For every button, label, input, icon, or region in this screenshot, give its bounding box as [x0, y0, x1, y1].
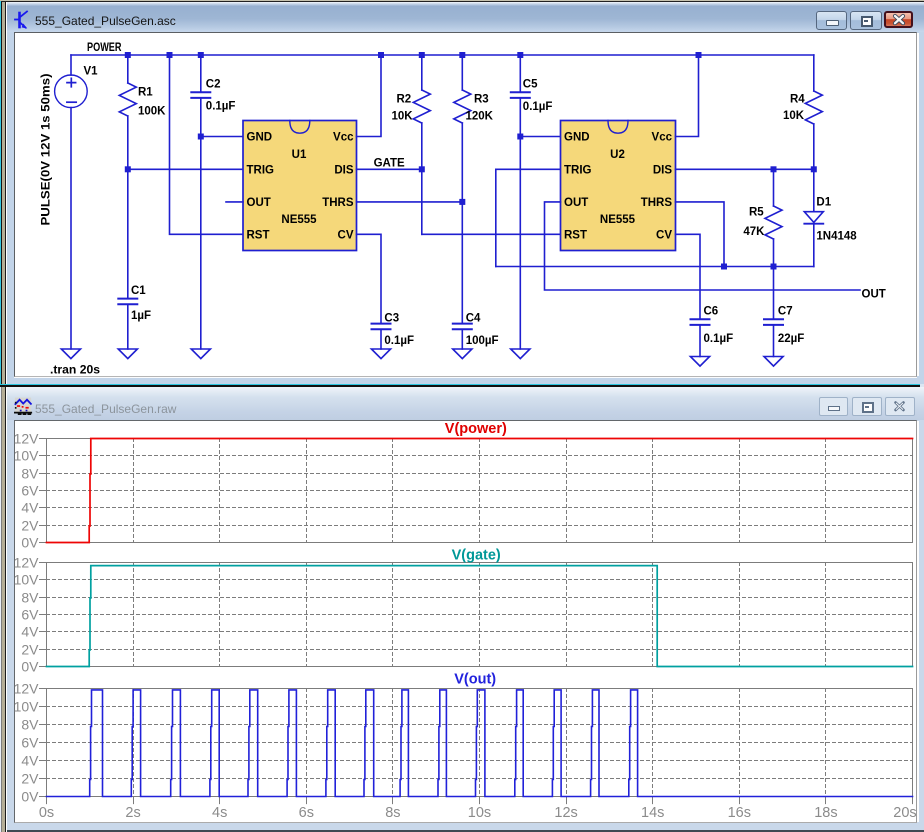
svg-text:6s: 6s [299, 805, 314, 821]
op-amp U2 (NE555 timer) [561, 121, 676, 251]
svg-text:10V: 10V [14, 571, 40, 587]
resistor R3 [454, 55, 494, 323]
op-amp U1 (NE555 timer) [243, 121, 357, 251]
resistor R5 [743, 169, 782, 266]
svg-text:10K: 10K [783, 110, 805, 122]
svg-text:GND: GND [564, 132, 590, 144]
svg-text:R3: R3 [474, 94, 489, 106]
capacitor C3 [372, 313, 415, 350]
svg-text:Vcc: Vcc [652, 132, 673, 144]
svg-text:0V: 0V [21, 658, 39, 674]
svg-text:OUT: OUT [564, 197, 588, 209]
svg-text:R5: R5 [749, 207, 764, 219]
svg-text:4V: 4V [21, 752, 39, 768]
svg-text:Vcc: Vcc [333, 132, 354, 144]
svg-text:2V: 2V [21, 517, 39, 533]
ground (V1) [61, 349, 80, 359]
ground (C3) [371, 349, 390, 359]
client area border [14, 32, 917, 377]
svg-text:OUT: OUT [247, 197, 271, 209]
svg-text:TRIG: TRIG [564, 164, 592, 176]
LTspice app icon (title bar) [15, 12, 27, 28]
svg-text:10K: 10K [392, 111, 414, 123]
svg-text:RST: RST [564, 229, 587, 241]
svg-text:2V: 2V [21, 641, 39, 657]
svg-text:PULSE(0V 12V 1s 50ms): PULSE(0V 12V 1s 50ms) [41, 73, 53, 225]
capacitor C7 [764, 267, 804, 357]
svg-text:10V: 10V [14, 447, 40, 463]
wire DIS U2 [676, 168, 814, 170]
wire OUT U2 [545, 202, 861, 290]
svg-text:100K: 100K [138, 106, 166, 118]
wire power rail [71, 54, 814, 56]
right edge white separator strips [917, 33, 919, 376]
svg-text:THRS: THRS [641, 197, 673, 209]
svg-text:0.1µF: 0.1µF [704, 333, 734, 345]
svg-text:6V: 6V [21, 606, 39, 622]
svg-text:47K: 47K [743, 226, 765, 238]
svg-text:U2: U2 [610, 149, 625, 161]
time axis ticks [47, 797, 913, 804]
svg-text:DIS: DIS [653, 164, 673, 176]
pin stub OUT U1 [226, 201, 243, 203]
svg-text:0V: 0V [21, 534, 39, 550]
pane V(power) grid and frame [40, 439, 913, 543]
ground (C6) [690, 357, 709, 367]
svg-text:R2: R2 [397, 94, 412, 106]
svg-text:0V: 0V [21, 788, 39, 804]
svg-text:D1: D1 [816, 196, 831, 208]
ground (C5) [511, 349, 530, 359]
capacitor C1 [118, 285, 151, 349]
svg-text:22µF: 22µF [778, 333, 804, 345]
diode D1 [804, 169, 857, 266]
svg-text:V(power): V(power) [445, 421, 507, 437]
svg-text:V1: V1 [84, 66, 99, 78]
svg-text:NE555: NE555 [281, 214, 317, 226]
svg-text:CV: CV [656, 229, 672, 241]
svg-text:0s: 0s [39, 805, 54, 821]
svg-text:GATE: GATE [374, 158, 405, 170]
capacitor C6 [691, 306, 734, 357]
ground (C1) [118, 349, 137, 359]
svg-text:C1: C1 [131, 285, 146, 297]
resistor R1 [119, 55, 166, 298]
wire Vcc U1 [357, 55, 382, 137]
svg-text:12V: 12V [14, 680, 40, 696]
wire DIS U1 / GATE [357, 168, 422, 170]
svg-text:V(out): V(out) [454, 671, 496, 687]
trace V(power) [47, 439, 913, 543]
capacitor C5 [511, 55, 553, 349]
window buttons [816, 11, 847, 30]
svg-text:2V: 2V [21, 770, 39, 786]
svg-text:8V: 8V [21, 716, 39, 732]
window buttons (inactive style) [819, 397, 849, 416]
wire RST column [170, 55, 244, 234]
svg-text:C6: C6 [704, 306, 719, 318]
svg-text:C2: C2 [206, 78, 221, 90]
resistor R4 [783, 55, 822, 169]
client area [14, 420, 917, 823]
wire CV U1 to C3 [357, 234, 382, 323]
resistor R2 [392, 55, 431, 234]
svg-text:C5: C5 [523, 79, 538, 91]
svg-text:4V: 4V [21, 499, 39, 515]
svg-text:THRS: THRS [322, 197, 354, 209]
pane V(out) grid and frame [40, 689, 913, 797]
wire GND U1 [201, 136, 243, 138]
capacitor C4 [453, 313, 499, 350]
svg-text:RST: RST [247, 229, 270, 241]
junction nodes (solid squares) [125, 52, 817, 270]
voltage source V1 [41, 55, 99, 349]
svg-text:R1: R1 [138, 87, 153, 99]
svg-text:0.1µF: 0.1µF [523, 101, 553, 113]
pane V(gate) voltage axis labels [14, 554, 40, 674]
svg-text:1µF: 1µF [131, 310, 151, 322]
svg-text:0.1µF: 0.1µF [206, 101, 236, 113]
svg-text:120K: 120K [466, 111, 494, 123]
time axis labels [39, 805, 917, 821]
waveform doc icon (bottom title bar) [15, 398, 31, 415]
svg-text:14s: 14s [641, 805, 664, 821]
trace V(gate) [47, 566, 913, 667]
svg-text:CV: CV [338, 229, 354, 241]
title bar gradient [7, 2, 924, 32]
svg-text:16s: 16s [728, 805, 751, 821]
svg-text:10s: 10s [468, 805, 491, 821]
svg-text:2s: 2s [125, 805, 140, 821]
svg-text:GND: GND [247, 132, 273, 144]
bottom frame line of window [7, 830, 924, 832]
svg-text:TRIG: TRIG [247, 164, 275, 176]
svg-text:8s: 8s [385, 805, 400, 821]
pane V(gate) grid and frame [40, 563, 913, 667]
wire CV U2 to C6 [676, 234, 701, 319]
svg-text:V(gate): V(gate) [452, 547, 501, 563]
wire TRIG U2 [496, 169, 561, 266]
svg-text:.tran 20s: .tran 20s [50, 365, 100, 377]
svg-text:C4: C4 [466, 313, 481, 325]
svg-text:8V: 8V [21, 589, 39, 605]
ground (C7) [764, 357, 783, 367]
ground (C4) [453, 349, 472, 359]
svg-text:12s: 12s [554, 805, 577, 821]
svg-text:20s: 20s [893, 805, 916, 821]
pane V(out) voltage axis labels [14, 680, 40, 804]
svg-text:C7: C7 [778, 306, 793, 318]
svg-text:DIS: DIS [334, 164, 354, 176]
separation lines under top window [0, 384, 920, 385]
svg-text:4V: 4V [21, 623, 39, 639]
svg-text:6V: 6V [21, 734, 39, 750]
wire TRIG U1 [128, 168, 243, 170]
wire THRS U1 [357, 201, 463, 203]
pane V(power) voltage axis labels [14, 430, 40, 550]
svg-text:18s: 18s [814, 805, 837, 821]
svg-text:1N4148: 1N4148 [816, 231, 857, 243]
wire RST U2 [422, 233, 561, 235]
trace V(out) [47, 690, 913, 797]
svg-text:R4: R4 [790, 94, 805, 106]
svg-text:12V: 12V [14, 430, 40, 446]
capacitor C2 [191, 55, 235, 349]
wire Vcc U2 [676, 55, 699, 137]
svg-text:U1: U1 [292, 149, 307, 161]
wire GND U2 [520, 136, 560, 138]
title text [35, 14, 176, 28]
svg-text:C3: C3 [384, 313, 399, 325]
svg-text:0.1µF: 0.1µF [384, 335, 414, 347]
svg-text:100µF: 100µF [466, 335, 499, 347]
svg-text:6V: 6V [21, 482, 39, 498]
svg-text:NE555: NE555 [600, 214, 636, 226]
wire THRS U2 [676, 202, 725, 267]
wire timing node [496, 266, 814, 268]
svg-text:OUT: OUT [862, 288, 886, 300]
svg-text:10V: 10V [14, 698, 40, 714]
ground (C2 line) [191, 349, 210, 359]
svg-text:4s: 4s [212, 805, 227, 821]
svg-text:8V: 8V [21, 465, 39, 481]
svg-text:POWER: POWER [87, 42, 122, 54]
title text [35, 402, 176, 416]
svg-text:12V: 12V [14, 554, 40, 570]
